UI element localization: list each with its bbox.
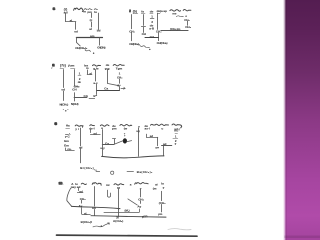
item 9 wire col2 lower <box>80 149 82 163</box>
item 8 wire L2 mid <box>96 84 98 89</box>
svg-text:Ay: Ay <box>79 204 83 208</box>
svg-text:Eᵐ: Eᵐ <box>93 94 97 98</box>
item 7 wire col4 vertical <box>157 13 159 29</box>
svg-text:pay ad: pay ad <box>71 185 81 189</box>
item 10 faint smudge <box>168 229 191 230</box>
item 8 diagonal wire L3 <box>108 84 119 86</box>
svg-text:g fe: g fe <box>93 66 99 70</box>
item 10 line2 wire <box>104 212 139 214</box>
svg-text:y i: y i <box>75 127 79 131</box>
item 7 squiggle <box>140 45 150 47</box>
item 7 underline under de <box>150 13 153 15</box>
item 9 title word fluis <box>172 124 182 128</box>
svg-text:pm: pm <box>112 127 117 131</box>
item 9 mid wire vertical <box>114 139 116 144</box>
item 8 right stack wire lower <box>119 86 121 90</box>
purple sidebar <box>284 0 320 240</box>
svg-text:(CH₂: (CH₂ <box>159 201 166 205</box>
svg-text:Ha: Ha <box>66 124 70 128</box>
item 9 left mini dash row <box>65 134 70 135</box>
item 9 title word calou <box>100 125 109 126</box>
svg-text:a·B: a·B <box>149 27 155 31</box>
svg-text:uy: uy <box>136 129 140 133</box>
item 9 small dash left <box>96 171 100 173</box>
item 10 stack1 bracket <box>77 192 83 194</box>
svg-text:de: de <box>150 9 154 13</box>
item 9 blob arm right <box>127 141 132 142</box>
svg-text:CH₃: CH₃ <box>185 25 191 29</box>
item 7 wire col2 lower <box>143 27 145 32</box>
svg-text:CH(CH₃): CH(CH₃) <box>157 41 168 45</box>
item 10 lower bracket <box>82 214 91 216</box>
svg-text:CH₂: CH₂ <box>156 29 162 33</box>
svg-text:A(CH₃): A(CH₃) <box>113 219 123 223</box>
item 9 long wavy horizontal wire <box>102 156 164 158</box>
item 9 mid-left bracket <box>90 130 100 135</box>
item 6 bracket wire <box>66 21 76 23</box>
item 10 wire colB to line3 <box>118 213 120 216</box>
svg-text:Em: Em <box>64 139 69 143</box>
item 6 wire col2 vertical <box>75 22 77 29</box>
svg-text:CH(CH₃)₂: CH(CH₃)₂ <box>75 46 88 50</box>
item 7 wire right vertical <box>187 21 189 25</box>
svg-text:m₃: m₃ <box>174 128 179 132</box>
item 9 wire col4 vertical <box>138 128 140 156</box>
svg-text:mi: mi <box>106 183 110 187</box>
item 8 branch dash <box>89 98 95 100</box>
svg-text:ca.: ca. <box>67 147 71 151</box>
item 9 wire col3 vertical <box>102 130 104 144</box>
item 8 title word segundo <box>113 65 124 66</box>
item 7 script fml <box>176 15 183 18</box>
svg-text:ꭉum: ꭉum <box>67 63 74 67</box>
svg-text:ad: ad <box>150 134 154 138</box>
svg-text:7: 7 <box>129 9 131 13</box>
item 9 right stack dash2 <box>173 138 178 140</box>
svg-text:as·l: as·l <box>145 126 150 130</box>
svg-text:(m: (m <box>153 186 157 190</box>
svg-text:Ca: Ca <box>104 86 108 90</box>
svg-text:Ay: Ay <box>137 205 141 209</box>
item 10 number <box>58 182 62 185</box>
item 6 wire left vertical <box>65 14 67 22</box>
item 10 right col wire lower <box>161 204 163 212</box>
item 6 squiggle <box>85 50 91 52</box>
item 9 mid dash <box>112 138 115 140</box>
item 9 title word m-hidulim <box>151 124 169 125</box>
item 8 right stack wire <box>119 79 121 83</box>
svg-text:u: u <box>161 126 163 130</box>
svg-text:CH(CH₃): CH(CH₃) <box>97 46 106 50</box>
item 10 wire colB vertical <box>118 189 120 209</box>
item 8 underline under Juan <box>71 68 75 70</box>
svg-text:a·c: a·c <box>93 81 98 85</box>
item 9 blob arm left <box>114 141 123 144</box>
svg-text:CH₂: CH₂ <box>129 29 135 33</box>
item 7 wire col1 vertical <box>131 15 133 29</box>
item 8 wire L3 vertical <box>107 69 109 83</box>
item 6 title word ls <box>89 8 93 11</box>
svg-text:aL: aL <box>70 19 74 23</box>
item 8 title word Reum <box>93 65 101 66</box>
item 7 dot <box>149 49 150 50</box>
svg-text:al: al <box>89 72 92 76</box>
svg-text:CH₃: CH₃ <box>117 75 123 79</box>
item 9 label tail squiggle <box>94 169 97 172</box>
item 9 right stack dash1 <box>175 133 178 135</box>
scan artifact bottom line <box>57 235 198 236</box>
item 7 dash col3 <box>150 18 154 20</box>
item 7 dash col2 <box>141 26 145 28</box>
item 7 title word montrer <box>170 10 181 12</box>
item 10 title word puhi <box>114 184 124 185</box>
svg-text:od: od <box>92 206 96 210</box>
svg-text:Tgm: Tgm <box>116 67 123 71</box>
svg-text:y∞: y∞ <box>155 146 159 150</box>
item 6 title word de <box>84 8 87 11</box>
svg-text:Ba(CH₃)₂: Ba(CH₃)₂ <box>137 170 153 174</box>
svg-text:od: od <box>74 29 78 33</box>
item 7 underline under (b) <box>133 13 138 15</box>
svg-text:m: m <box>86 66 89 70</box>
svg-text:8.: 8. <box>52 63 55 67</box>
svg-text:ad: ad <box>79 190 83 194</box>
item 6 title word 1 <box>74 8 84 11</box>
item 10 squiggle arrow <box>93 223 110 227</box>
svg-text:deja: deja <box>157 9 163 13</box>
item 7 wire col1 drop <box>131 32 133 40</box>
svg-text:bd: bd <box>97 29 101 33</box>
svg-text:y: y <box>163 185 165 189</box>
item 9 number <box>54 122 57 125</box>
sidebar inner dark edge line <box>286 0 287 240</box>
item 8 long horizontal wire <box>97 90 120 92</box>
item 10 drop to bracket <box>81 208 83 214</box>
item 10 dot <box>101 225 102 226</box>
item 7 right horizontal wire <box>161 30 188 32</box>
item 8 wire V2 lower <box>74 93 76 101</box>
item 10 cluster drop wire <box>139 209 141 212</box>
item 8 arrow mark <box>121 87 125 89</box>
svg-text:N(CH): N(CH) <box>71 102 79 106</box>
svg-text:fa: fa <box>141 9 144 13</box>
item 8 wire L2 below <box>96 91 98 95</box>
svg-text:˘ e ˘: ˘ e ˘ <box>62 108 68 112</box>
item 9 right horizontal wire <box>162 145 172 147</box>
svg-text:(M,): (M,) <box>125 209 130 213</box>
svg-text:N(CH₃): N(CH₃) <box>60 102 69 106</box>
item 10 title word Bandom <box>135 183 149 185</box>
svg-text:B(CH₃)l: B(CH₃)l <box>81 220 92 224</box>
item 10 line3 wire <box>91 216 166 217</box>
item 8 wire L2 vertical <box>95 69 97 81</box>
item 10 line1 wire <box>72 206 121 208</box>
item 9 wire bracket drop <box>157 137 159 145</box>
svg-text:aL: aL <box>84 212 88 216</box>
item 7 lower horizontal wire <box>145 37 158 39</box>
svg-text:a: a <box>130 182 132 186</box>
item 6 dot <box>93 53 94 54</box>
svg-text:10.: 10. <box>58 182 63 186</box>
item 10 wire colA vertical <box>94 187 96 206</box>
svg-text:u·y: u·y <box>100 146 105 150</box>
svg-text:CH₂: CH₂ <box>150 35 156 39</box>
svg-text:ȝER: ȝER <box>142 215 147 219</box>
svg-text:am: am <box>90 34 95 38</box>
item 9 col3 horizontal wire <box>102 144 114 146</box>
item 8 dash under 7c <box>60 68 64 70</box>
item 6 number <box>53 7 56 10</box>
item 10 left curve wire <box>67 188 72 206</box>
item 10 right col wire <box>161 191 163 200</box>
svg-text:(b): (b) <box>133 9 137 13</box>
item 8 wire V1 vertical <box>63 70 65 88</box>
sidebar bottom dark band <box>284 236 320 239</box>
item 8 wire L1 vertical <box>87 70 89 74</box>
svg-text:de·l: de·l <box>89 126 95 130</box>
item 9 O circle <box>111 171 114 174</box>
item 10 stack1 wire mid <box>81 200 83 203</box>
item 7 wire col2 vertical <box>143 15 145 26</box>
item 10 mid col wire lower <box>140 201 142 203</box>
item 10 stack1 wire top <box>78 188 80 191</box>
item 8 wire V1 lower <box>63 91 65 101</box>
item 10 wire colA lower <box>94 209 96 215</box>
sidebar soft left edge <box>284 0 286 240</box>
svg-text:ap: ap <box>163 9 167 13</box>
item 6 title word ne <box>94 8 97 11</box>
item 9 title word gaolu <box>75 125 83 127</box>
item 8 bracket L1 <box>87 74 92 76</box>
item 6 main horizontal wire <box>76 37 102 39</box>
svg-text:me: me <box>172 11 177 15</box>
svg-text:CH₃: CH₃ <box>138 198 144 202</box>
item 8 stack dash <box>78 75 81 77</box>
svg-text:9.: 9. <box>54 122 57 126</box>
svg-text:CH: CH <box>142 32 146 36</box>
svg-text:(c: (c <box>90 18 93 22</box>
svg-text:CH₃: CH₃ <box>80 197 86 201</box>
svg-text:Br(CH₃): Br(CH₃) <box>80 166 93 170</box>
item 9 wire col3 lower <box>102 145 104 156</box>
item 9 wire right L vertical <box>163 146 165 156</box>
item 9 title word mandir <box>120 125 132 126</box>
item 10 mid col wire <box>140 190 142 197</box>
item 9 dark blob node <box>123 138 127 143</box>
svg-text:CH(CH₃)₂: CH(CH₃)₂ <box>129 42 140 46</box>
svg-text:6.: 6. <box>52 7 55 11</box>
svg-text:m: m <box>83 9 86 13</box>
item 7 wire col4 drop <box>158 33 160 41</box>
item 9 mid bracket hook <box>147 134 158 137</box>
item 6 wire drop right <box>99 38 101 46</box>
item 8 number <box>52 64 55 67</box>
item 10 diagonal to cluster <box>128 199 137 205</box>
item 6 wire mid vertical lower <box>91 22 93 27</box>
item 6 wire drop left <box>77 37 81 46</box>
svg-text:de: de <box>78 80 82 84</box>
svg-text:lu: lu <box>94 10 97 14</box>
svg-text:(CH₂)m: (CH₂)m <box>170 27 181 31</box>
item 8 wire V2 vertical <box>74 70 76 86</box>
svg-text:al: al <box>89 27 92 31</box>
item 10 junction wire colB <box>118 209 120 212</box>
svg-text:(7c): (7c) <box>60 63 66 67</box>
item 7 number <box>129 10 131 13</box>
item 9 title word der <box>90 124 95 127</box>
item 9 left bracket wire <box>66 148 75 151</box>
item 10 U shape <box>108 190 111 197</box>
svg-text:ym: ym <box>158 212 163 216</box>
item 9 dash before label <box>127 171 134 173</box>
item 6 wire mid vertical upper <box>91 13 93 17</box>
item 10 title word vilv <box>81 183 86 184</box>
item 9 wire col2 vertical <box>80 128 82 146</box>
item 7 underline under fa <box>141 13 145 15</box>
item 8 branch wire <box>74 97 87 99</box>
item 7 dash under deja <box>157 13 160 15</box>
item 6 wire right vertical <box>98 13 100 30</box>
svg-text:ad: ad <box>163 142 167 146</box>
item 7 title word ceux <box>183 10 191 11</box>
item 10 title word Aliyi <box>92 183 101 186</box>
svg-text:ad: ad <box>93 132 97 136</box>
svg-text:y·C: y·C <box>65 134 71 138</box>
